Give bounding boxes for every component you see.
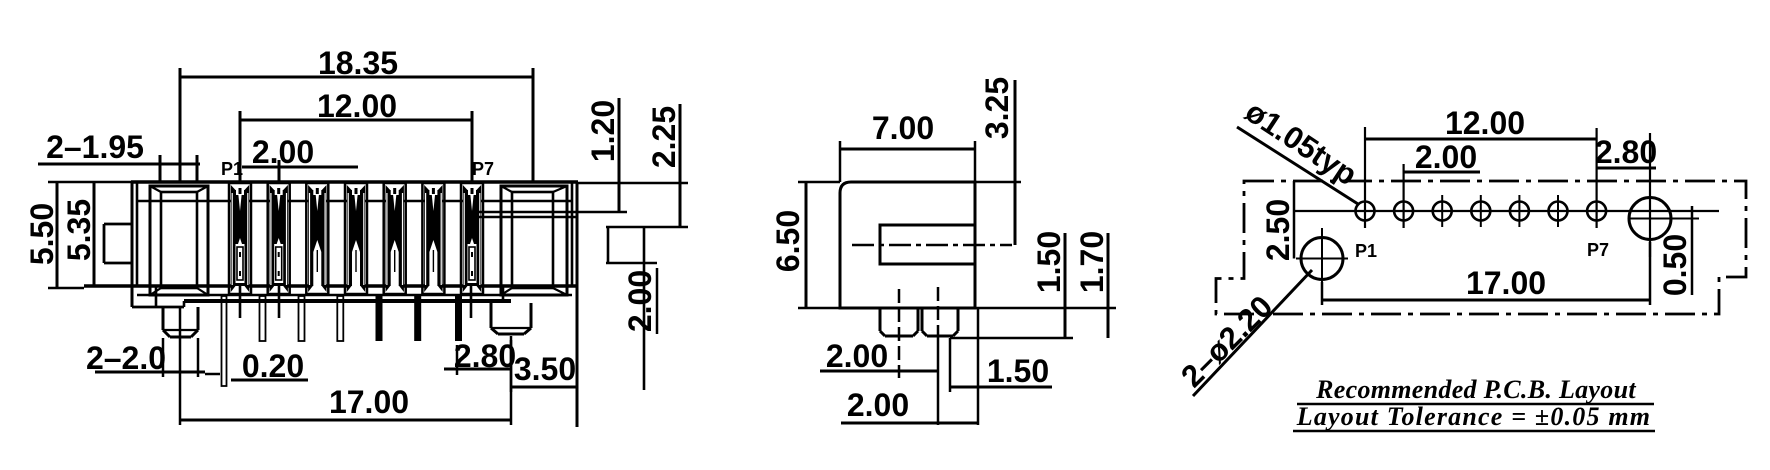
dim line 6.50	[805, 182, 808, 308]
contact slot P6	[422, 183, 444, 294]
svg-text:2.25: 2.25	[646, 106, 682, 168]
dim line 18.35	[180, 76, 533, 79]
body bottom + ext	[798, 307, 1116, 310]
caption underline 2	[1293, 430, 1655, 433]
dim line 2-1.95	[38, 163, 200, 166]
ext line P1	[239, 111, 242, 182]
ext line 1.95 left	[159, 155, 162, 182]
svg-text:2.80: 2.80	[1595, 134, 1657, 170]
ext line 17.00 right	[510, 340, 513, 425]
ext line 1.95 right	[196, 155, 199, 182]
svg-text:P7: P7	[472, 159, 494, 179]
ext line right 18.35	[532, 68, 535, 182]
svg-text:P1: P1	[1355, 241, 1377, 261]
dim line 2.00	[242, 166, 358, 169]
ext 17.00 right	[1649, 242, 1652, 305]
right mounting peg	[490, 303, 493, 328]
feet bottom ext	[950, 337, 1073, 340]
dim line 2.80 pcb	[1597, 167, 1657, 170]
dim line 1.20	[618, 98, 621, 213]
svg-text:3.50: 3.50	[514, 351, 576, 387]
svg-text:0.50: 0.50	[1657, 234, 1693, 296]
svg-text:Layout Tolerance = ±0.05 m: Layout Tolerance = ±0.05 mm	[1296, 402, 1651, 431]
tail 6	[414, 296, 421, 341]
svg-text:2.00: 2.00	[622, 270, 658, 332]
left tab edge	[103, 224, 106, 263]
skirt left edge	[155, 286, 158, 307]
contact slot P1	[229, 183, 251, 294]
skirt left step	[132, 306, 184, 309]
ext line P2	[278, 160, 281, 182]
svg-text:P1: P1	[221, 159, 243, 179]
slot centerline	[852, 244, 1012, 247]
dim line 2.00 pcb	[1404, 171, 1480, 174]
svg-text:2.50: 2.50	[1260, 199, 1296, 261]
tail 0.20 wide	[222, 296, 227, 386]
skirt right edge	[502, 286, 505, 301]
ext line contact top	[466, 211, 627, 214]
hole 2.20 left	[1301, 238, 1343, 280]
svg-text:1.50: 1.50	[1031, 231, 1067, 293]
tail 5	[376, 296, 383, 341]
pin tail P1	[239, 286, 242, 318]
ext line P7	[471, 111, 474, 182]
svg-text:5.35: 5.35	[61, 199, 97, 261]
svg-text:1.50: 1.50	[987, 353, 1049, 389]
hole P1	[1356, 202, 1375, 221]
dim line 1.50 right	[1064, 233, 1067, 338]
dim line 5.35	[93, 182, 96, 285]
left fitting block	[150, 186, 208, 295]
svg-text:Recommended P.C.B. Layout: Recommended P.C.B. Layout	[1315, 375, 1636, 404]
ext line body top left	[48, 181, 131, 184]
svg-text:17.00: 17.00	[329, 384, 409, 420]
right step left edge	[607, 227, 610, 263]
side slot	[880, 225, 975, 264]
hole P4	[1471, 202, 1490, 221]
contact slot P3	[306, 183, 328, 294]
tail 3	[299, 296, 305, 341]
ext line 2.80	[456, 345, 459, 375]
pin tail P2	[278, 286, 281, 318]
dim line 2-2.0	[95, 371, 205, 374]
ext line 2.25 bottom	[606, 226, 688, 229]
svg-text:P7: P7	[1587, 240, 1609, 260]
svg-text:7.00: 7.00	[872, 110, 934, 146]
hole P7	[1587, 202, 1606, 221]
tail 2	[260, 296, 266, 341]
ext line 17.00 left	[179, 307, 182, 425]
dim line 1.70 right	[1107, 233, 1110, 338]
body shelf top	[137, 200, 572, 203]
board outline	[1216, 181, 1746, 314]
svg-text:5.50: 5.50	[24, 203, 60, 265]
foot centerline 2 ext	[937, 336, 940, 425]
body bottom edge	[84, 284, 578, 287]
holes centerline	[1294, 210, 1719, 212]
hole P2	[1394, 202, 1413, 221]
body right edge	[576, 182, 579, 427]
svg-text:2.00: 2.00	[826, 338, 888, 374]
hole P6	[1549, 202, 1568, 221]
ext line left 18.35	[179, 68, 182, 182]
contact slot P7	[461, 183, 483, 294]
leader hole dia 2.20	[1193, 270, 1312, 396]
dim line 2.80	[444, 368, 511, 371]
ext line contact	[466, 216, 578, 219]
ext line peg left	[162, 338, 165, 377]
dim line 3.25	[1014, 80, 1017, 245]
left tab top	[104, 223, 132, 226]
right fitting block	[501, 186, 567, 295]
svg-text:1.20: 1.20	[585, 100, 621, 162]
svg-text:2–1.95: 2–1.95	[46, 129, 144, 165]
ext line 6.50 top	[798, 181, 840, 184]
body shelf bottom	[137, 294, 572, 297]
svg-text:2.00: 2.00	[252, 134, 314, 170]
svg-text:17.00: 17.00	[1466, 265, 1546, 301]
dim line 1.50 bottom	[949, 386, 1052, 389]
dim line 17.00 pcb	[1322, 299, 1650, 302]
hole P3	[1433, 202, 1452, 221]
dim line 0.50 pcb	[1691, 206, 1694, 295]
contact slot P2	[268, 183, 290, 294]
ext 17.00 left	[1321, 282, 1324, 305]
ext line foot right	[949, 338, 952, 392]
svg-text:2.00: 2.00	[847, 387, 909, 423]
tail 7	[455, 296, 462, 341]
ext line peg right	[197, 338, 200, 377]
svg-text:2.00: 2.00	[1415, 139, 1477, 175]
dim line 2.50 pcb	[1293, 181, 1296, 259]
svg-text:3.25: 3.25	[979, 77, 1015, 139]
contact slot P4	[345, 183, 367, 294]
dim line 0.20	[231, 379, 308, 382]
right step right edge	[643, 227, 646, 390]
ext line 7.00 right	[974, 141, 977, 182]
side body outline	[840, 182, 975, 308]
body right ext down	[977, 308, 980, 425]
hole 2.20 right	[1629, 198, 1671, 240]
svg-text:12.00: 12.00	[1445, 105, 1525, 141]
dim line 2.00 feet	[820, 370, 938, 373]
hole P5	[1510, 202, 1529, 221]
side feet	[879, 308, 882, 331]
body left inner wall	[136, 182, 139, 286]
contact slot P5	[384, 183, 406, 294]
ext line 3.50 left	[510, 336, 513, 392]
tail 4	[337, 296, 343, 341]
dim line 7.00	[840, 148, 975, 151]
body left edge	[131, 182, 134, 307]
dim line 12.00 pcb	[1365, 138, 1597, 141]
left mounting peg	[162, 307, 165, 330]
caption underline 1	[1297, 403, 1654, 406]
left tab bottom	[104, 262, 132, 265]
ext line 5.50 bottom	[48, 287, 84, 290]
svg-text:1.70: 1.70	[1074, 231, 1110, 293]
skirt bottom edge	[184, 299, 511, 303]
dim line 2.00 lower	[841, 422, 978, 425]
dim line 12.00	[240, 119, 472, 122]
dim line 2.25	[679, 104, 682, 227]
pin tail P7	[470, 286, 473, 318]
foot centerline 1	[898, 289, 901, 378]
dim line 3.50	[511, 386, 577, 389]
body top edge	[131, 180, 578, 184]
right step bottom	[606, 262, 657, 265]
foot centerline 2	[937, 287, 940, 336]
underline 2.00 right	[656, 268, 659, 334]
ext line top right	[578, 182, 688, 185]
svg-text:6.50: 6.50	[770, 210, 806, 272]
body right inner wall	[571, 182, 574, 286]
dim line 17.00	[180, 419, 511, 422]
ext line 3.25 top	[975, 181, 1021, 184]
ext line 7.00 left	[839, 141, 842, 182]
skirt step vertical	[183, 301, 186, 307]
dim line 5.50	[56, 182, 59, 288]
leader 0.20	[205, 373, 220, 376]
leader hole dia 1.05	[1237, 127, 1358, 204]
